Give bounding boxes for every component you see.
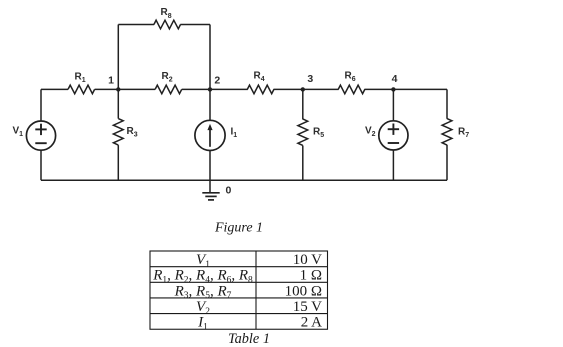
- wire R4 right to node 3: [274, 88, 303, 90]
- resistor R4: [247, 71, 274, 94]
- wire node 2 down to I1: [209, 89, 211, 120]
- wire I1 to bottom bus: [209, 151, 211, 181]
- svg-text:10 V: 10 V: [293, 252, 322, 268]
- wire R2 right to node 2: [182, 88, 210, 90]
- svg-text:R7: R7: [458, 127, 469, 140]
- svg-text:R2: R2: [162, 71, 173, 84]
- node 3: [301, 73, 314, 92]
- svg-text:0: 0: [225, 185, 231, 197]
- wire R7 to bottom bus: [446, 145, 448, 180]
- svg-text:2 A: 2 A: [301, 315, 322, 331]
- table row V2 = 15 V: [196, 299, 322, 317]
- wire node 1 down to R3: [117, 89, 119, 118]
- wire node 1 up to top bus: [117, 25, 119, 90]
- wire R6 right to node 4: [364, 88, 393, 90]
- resistor R2: [155, 71, 182, 94]
- wire node 2 down from top bus: [209, 25, 211, 90]
- wire bottom bus: [41, 179, 447, 181]
- svg-text:4: 4: [392, 73, 398, 85]
- svg-text:R4: R4: [254, 71, 265, 84]
- svg-text:V2: V2: [365, 125, 376, 138]
- wire V2 bottom lead: [392, 150, 394, 180]
- svg-text:1: 1: [108, 74, 114, 86]
- table row R3,R5,R7 = 100 ohm: [174, 283, 322, 301]
- wire node 3 to R6 left: [303, 88, 339, 90]
- svg-text:3: 3: [307, 73, 313, 85]
- wire R1 right to node 1: [95, 88, 119, 90]
- svg-text:100 Ω: 100 Ω: [285, 283, 322, 299]
- table row V1 = 10 V: [196, 252, 322, 270]
- wire node 3 down to R5: [302, 89, 304, 119]
- voltage source V2: [365, 121, 408, 150]
- wire node 2 to R4 left: [210, 88, 248, 90]
- current source I1: [195, 120, 237, 150]
- svg-text:2: 2: [214, 75, 220, 87]
- wire top bus left segment: [118, 24, 154, 26]
- wire R3 to bottom bus: [117, 145, 119, 180]
- svg-text:15 V: 15 V: [293, 299, 322, 315]
- ground: [202, 180, 219, 200]
- node 2: [208, 75, 221, 92]
- resistor R1: [68, 72, 95, 94]
- svg-text:R5: R5: [313, 127, 324, 140]
- resistor R7: [442, 119, 469, 146]
- resistor R3: [113, 119, 137, 146]
- svg-text:R1: R1: [75, 72, 86, 85]
- resistor R6: [338, 71, 365, 94]
- resistor R5: [298, 119, 324, 145]
- svg-text:V1: V1: [13, 125, 24, 138]
- wire top bus right segment: [180, 24, 210, 26]
- svg-text:R3: R3: [127, 126, 138, 139]
- voltage source V1: [13, 121, 56, 150]
- wire right branch down to R7: [446, 89, 448, 118]
- wire V1 bottom lead: [40, 150, 42, 180]
- resistor R8: [154, 7, 181, 29]
- wire main bus V1 to R1 left: [41, 88, 68, 90]
- node 4: [391, 73, 397, 92]
- svg-text:I1: I1: [197, 315, 208, 333]
- svg-text:R6: R6: [345, 71, 356, 84]
- wire node 4 down to V2: [392, 89, 394, 121]
- node 1: [108, 74, 120, 91]
- wire node 1 to R2 left: [118, 88, 155, 90]
- svg-text:I1: I1: [231, 127, 238, 140]
- svg-text:Figure 1: Figure 1: [214, 221, 263, 236]
- svg-text:1 Ω: 1 Ω: [300, 268, 322, 284]
- table row R1,R2,R4,R6,R8 = 1 ohm: [152, 268, 322, 286]
- table 1 grid: [150, 251, 328, 329]
- svg-text:Table 1: Table 1: [228, 331, 270, 347]
- wire R5 to bottom bus: [302, 146, 304, 181]
- wire node 4 to top of R7 branch: [393, 88, 447, 90]
- table row I1 = 2 A: [197, 315, 322, 333]
- svg-text:R8: R8: [161, 7, 172, 20]
- wire V1 top lead: [40, 89, 42, 121]
